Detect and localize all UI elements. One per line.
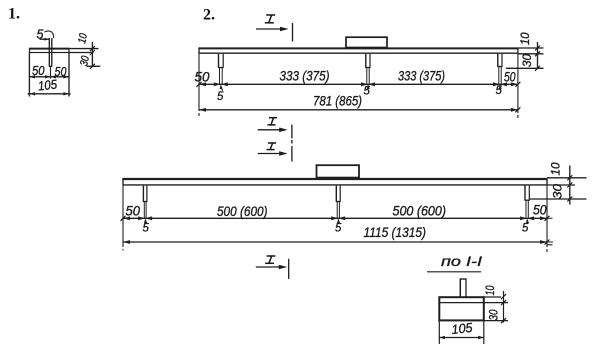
svg-text:10: 10 bbox=[483, 285, 497, 295]
svg-text:50: 50 bbox=[504, 69, 516, 85]
svg-text:1.: 1. bbox=[8, 6, 20, 23]
svg-text:2.: 2. bbox=[203, 7, 215, 24]
svg-text:50: 50 bbox=[533, 202, 547, 218]
svg-text:5: 5 bbox=[364, 86, 371, 98]
svg-text:5: 5 bbox=[496, 85, 503, 97]
svg-text:50: 50 bbox=[195, 69, 210, 85]
svg-text:50: 50 bbox=[55, 64, 68, 79]
svg-text:5: 5 bbox=[143, 223, 150, 235]
svg-text:30: 30 bbox=[487, 309, 501, 320]
svg-text:50: 50 bbox=[32, 63, 45, 78]
svg-text:30: 30 bbox=[551, 184, 565, 199]
svg-text:по I-I: по I-I bbox=[441, 254, 482, 269]
svg-text:1115 (1315): 1115 (1315) bbox=[364, 224, 427, 240]
svg-text:5: 5 bbox=[217, 91, 224, 103]
svg-text:105: 105 bbox=[37, 77, 58, 94]
svg-text:333 (375): 333 (375) bbox=[280, 68, 330, 84]
svg-text:500 (600): 500 (600) bbox=[393, 203, 447, 219]
svg-text:50: 50 bbox=[126, 203, 141, 219]
svg-text:500 (600): 500 (600) bbox=[217, 203, 268, 219]
svg-text:105: 105 bbox=[451, 320, 474, 337]
svg-text:30: 30 bbox=[520, 54, 534, 67]
svg-text:781 (865): 781 (865) bbox=[313, 93, 362, 109]
svg-text:5: 5 bbox=[37, 28, 44, 42]
svg-text:10: 10 bbox=[518, 32, 532, 45]
svg-text:5: 5 bbox=[335, 223, 342, 235]
svg-text:10: 10 bbox=[549, 162, 563, 175]
svg-text:333 (375): 333 (375) bbox=[398, 68, 445, 84]
svg-text:5: 5 bbox=[522, 223, 529, 235]
